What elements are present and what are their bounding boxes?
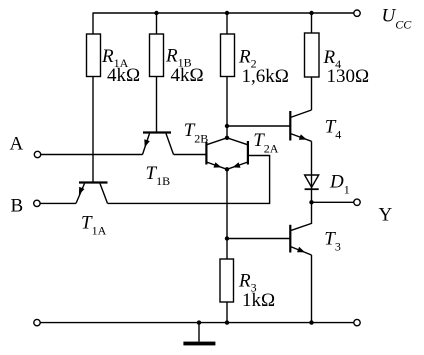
svg-text:4kΩ: 4kΩ (171, 65, 204, 86)
svg-text:1kΩ: 1kΩ (242, 290, 275, 311)
transistor T2A (227, 138, 248, 170)
transistor T1A (76, 183, 108, 204)
terminal Y (354, 199, 360, 205)
wire R3 bottom lead (226, 302, 228, 323)
terminal input B (34, 200, 40, 206)
wire T4 emitter to D1 (311, 141, 313, 175)
resistor R3 (220, 259, 234, 302)
wire T2 emitters down to R3 (226, 169, 228, 259)
svg-text:1,6kΩ: 1,6kΩ (242, 66, 289, 87)
node rail-R4 junction (309, 11, 313, 15)
terminal UCC (354, 10, 360, 16)
node T3 emitter-rail junction (309, 320, 313, 324)
wire output Y (312, 201, 354, 203)
svg-text:130Ω: 130Ω (327, 66, 370, 87)
svg-text:A: A (10, 134, 24, 155)
wire input B (40, 202, 76, 204)
svg-text:B: B (11, 196, 24, 217)
wire bottom ground rail (40, 322, 354, 324)
wire R2 top lead (226, 13, 228, 34)
wire D1 to output node (311, 189, 313, 202)
wire R1A bottom lead to T1A base (92, 77, 94, 183)
svg-text:4kΩ: 4kΩ (107, 65, 140, 86)
wire top VCC rail (93, 12, 354, 14)
wire T1A collector to T2A base (108, 156, 270, 204)
wire T3 base (227, 238, 290, 240)
terminal input A (34, 151, 40, 157)
terminal bottom left (34, 319, 40, 325)
svg-text:Y: Y (379, 205, 393, 226)
wire R4 top lead (311, 13, 313, 33)
node R3-rail junction (225, 320, 229, 324)
transistor T4 (290, 110, 311, 141)
transistor T3 (290, 225, 311, 255)
wire T3 emitter to ground rail (311, 255, 313, 323)
wire T1B collector to T2B base (174, 154, 207, 156)
wire T3 collector (290, 202, 311, 230)
ground (183, 323, 215, 346)
resistor R2 (221, 34, 235, 77)
terminal bottom right (354, 319, 360, 325)
resistor R1B (150, 34, 164, 77)
wire R1A top lead (92, 13, 94, 35)
node T2 collectors junction (225, 136, 229, 140)
wire input A (41, 154, 143, 156)
transistor T2B (206, 138, 227, 170)
wire R1B top lead (156, 13, 158, 34)
node ground junction (197, 320, 201, 324)
node T3 base junction (225, 236, 229, 240)
transistor T1B (143, 133, 174, 155)
node rail-R2 junction (225, 11, 229, 15)
resistor R4 (305, 33, 320, 77)
wire R2 bottom lead (226, 77, 228, 138)
node T2 emitters junction (225, 167, 229, 171)
node rail-R1B junction (154, 11, 158, 15)
wire R1B bottom lead to T1B base (156, 77, 158, 132)
diode D1 (305, 175, 319, 189)
resistor R1A (87, 34, 101, 77)
wire R4 bottom lead (T4 collector feed) (311, 77, 313, 110)
node output Y junction (309, 200, 313, 204)
node T4 base junction (225, 124, 229, 128)
wire T4 base (227, 125, 290, 127)
